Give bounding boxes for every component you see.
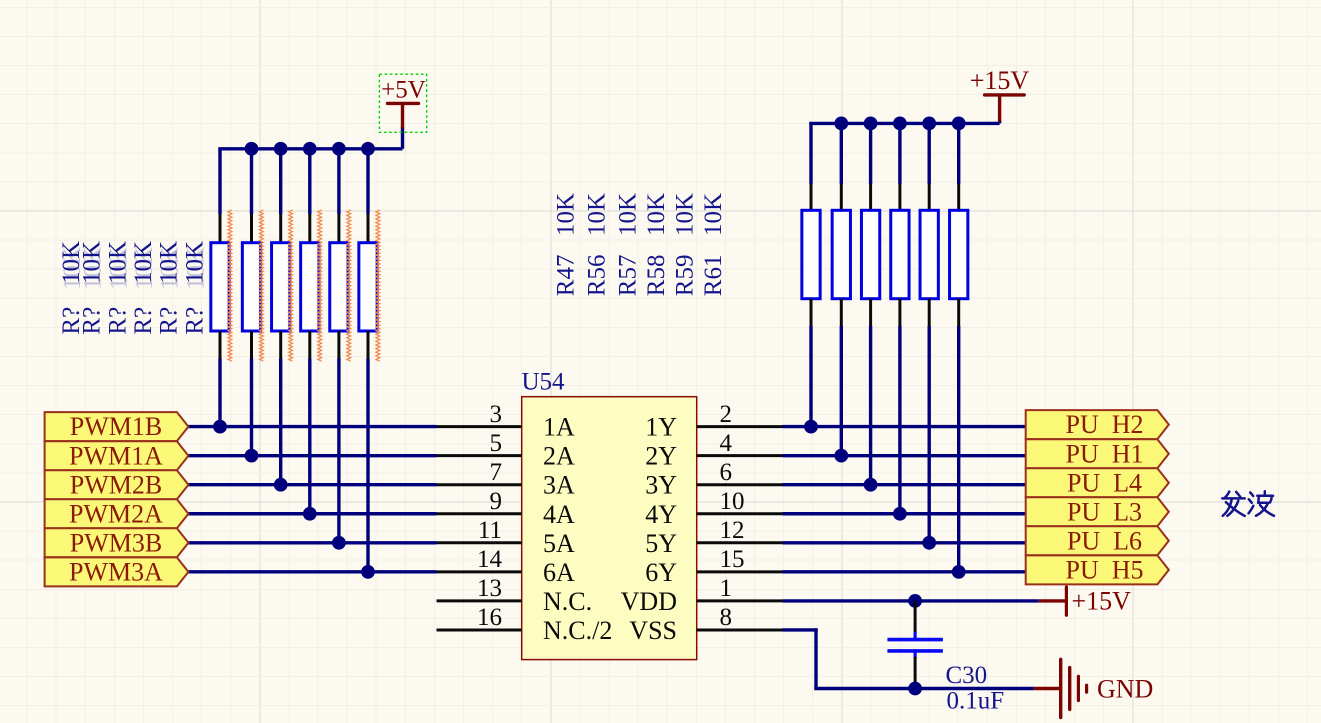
junction PWM2A / resistor column — [303, 507, 317, 521]
junction on +15V bus (col 5) — [922, 117, 936, 131]
svg-text:PU L6: PU L6 — [1067, 526, 1142, 555]
resistor R61 — [950, 123, 968, 571]
port PWM2B — [45, 470, 189, 499]
svg-text:2A: 2A — [543, 442, 575, 471]
pin 15 (6Y) — [645, 546, 782, 587]
svg-text:PWM1B: PWM1B — [70, 412, 162, 441]
svg-text:10: 10 — [720, 488, 745, 515]
IC U54 body — [522, 397, 697, 660]
selection box around +5V — [379, 74, 426, 132]
port PU L4 — [1026, 468, 1169, 497]
junction PU L4 / resistor R57 — [864, 478, 878, 492]
svg-text:12: 12 — [720, 517, 745, 544]
junction PU L3 / resistor R58 — [893, 507, 907, 521]
svg-text:+15V: +15V — [1072, 587, 1132, 616]
pin 2 (1Y) — [645, 401, 782, 442]
resistor R56 — [832, 123, 850, 455]
ground GND — [1034, 659, 1154, 717]
svg-text:9: 9 — [490, 488, 503, 515]
wire +5V bus horizontal — [218, 127, 402, 149]
svg-text:R?: R? — [79, 307, 106, 335]
port PWM1B — [45, 412, 189, 441]
svg-text:N.C.: N.C. — [543, 587, 592, 616]
wire PU H1 net — [783, 454, 1026, 457]
svg-text:1A: 1A — [543, 413, 575, 442]
port PU L6 — [1026, 526, 1169, 555]
port PU L3 — [1026, 497, 1169, 526]
junction PWM2B / resistor column — [274, 478, 288, 492]
error squiggle (left resistor 4) — [318, 210, 322, 361]
junction on +5V bus (col 3) — [274, 142, 288, 156]
power +15V (top) — [970, 66, 1030, 122]
svg-text:R57: R57 — [615, 255, 642, 297]
resistor R57 — [861, 123, 879, 484]
svg-text:3A: 3A — [543, 471, 575, 500]
port PWM2A — [45, 499, 189, 528]
wire VDD to +15V — [783, 599, 1039, 602]
label R56 10K — [584, 193, 611, 296]
port PWM3B — [45, 528, 189, 557]
junction on +5V bus (col 5) — [332, 142, 346, 156]
error squiggle (left resistor 2) — [260, 210, 264, 361]
svg-text:PU L3: PU L3 — [1067, 497, 1142, 526]
error squiggle (left resistor 6) — [376, 210, 380, 361]
resistor R59 — [920, 123, 938, 542]
error squiggle (left resistor 1) — [228, 210, 232, 361]
label R? 10K (left resistor 3) — [104, 241, 132, 335]
capacitor C30 — [887, 601, 943, 684]
svg-text:10K: 10K — [130, 241, 157, 284]
svg-text:PU H5: PU H5 — [1065, 555, 1143, 584]
pin 7 (3A) — [437, 459, 576, 500]
wire VSS to GND — [783, 628, 1034, 688]
svg-text:2: 2 — [720, 401, 733, 428]
svg-text:GND: GND — [1097, 675, 1153, 704]
svg-text:R56: R56 — [584, 255, 611, 297]
wire +15V bus horizontal — [809, 121, 999, 124]
svg-text:6: 6 — [720, 459, 733, 486]
pin 11 (5A) — [437, 517, 576, 558]
label R57 10K — [615, 193, 642, 296]
junction PU L6 / resistor R59 — [922, 536, 936, 550]
svg-text:PWM2B: PWM2B — [70, 470, 162, 499]
text 发波 — [1222, 491, 1274, 516]
svg-text:4: 4 — [720, 430, 733, 457]
svg-text:PWM3B: PWM3B — [70, 528, 162, 557]
label R? 10K (left resistor 6) — [181, 241, 209, 335]
junction PWM1A / resistor column — [245, 449, 259, 463]
resistor R? (left column 4) — [301, 149, 319, 514]
svg-text:8: 8 — [720, 604, 733, 631]
svg-text:VSS: VSS — [629, 616, 677, 645]
svg-text:16: 16 — [477, 604, 502, 631]
svg-text:4Y: 4Y — [645, 500, 677, 529]
svg-text:10K: 10K — [553, 193, 580, 236]
junction on +15V bus (col 3) — [864, 117, 878, 131]
wire PU L4 net — [783, 483, 1026, 486]
svg-text:+5V: +5V — [381, 77, 426, 104]
junction on +5V bus (col 4) — [303, 142, 317, 156]
port PU H5 — [1026, 555, 1169, 584]
svg-text:VDD: VDD — [621, 587, 677, 616]
junction VDD / C30 — [908, 594, 922, 608]
resistor R? (left column 6) — [359, 149, 377, 572]
junction on +5V bus (col 2) — [245, 142, 259, 156]
junction on +15V bus (col 2) — [834, 117, 848, 131]
wire PWM1B to pin — [188, 425, 436, 428]
svg-text:10K: 10K — [700, 193, 727, 236]
svg-text:10K: 10K — [672, 193, 699, 236]
svg-text:10K: 10K — [104, 241, 131, 284]
svg-text:0.1uF: 0.1uF — [947, 688, 1005, 715]
svg-text:PWM2A: PWM2A — [69, 499, 163, 528]
port PU H2 — [1026, 410, 1169, 439]
pin 1 (VDD) — [621, 575, 783, 616]
resistor R? (left column 1) — [211, 149, 229, 427]
port PWM3A — [45, 557, 189, 586]
junction on +15V bus (col 4) — [893, 117, 907, 131]
power +5V — [381, 77, 426, 129]
wire PWM3A to pin — [188, 570, 436, 573]
junction PU H2 / resistor R47 — [804, 420, 818, 434]
svg-text:10K: 10K — [181, 241, 208, 284]
resistor R? (left column 3) — [272, 149, 290, 485]
label R59 10K — [672, 193, 699, 296]
svg-text:PU H1: PU H1 — [1065, 439, 1143, 468]
pin 3 (1A) — [437, 401, 576, 442]
svg-text:R58: R58 — [643, 255, 670, 297]
pin 13 (N.C.) — [437, 575, 593, 616]
error squiggle (left resistor 3) — [289, 210, 293, 361]
svg-text:4A: 4A — [543, 500, 575, 529]
junction GND net / C30 — [908, 682, 922, 696]
resistor R47 — [802, 123, 820, 426]
wire PU L3 net — [783, 512, 1026, 515]
resistor R? (left column 5) — [330, 149, 348, 543]
pin 6 (3Y) — [645, 459, 782, 500]
svg-text:R?: R? — [156, 307, 183, 335]
svg-text:3Y: 3Y — [645, 471, 677, 500]
junction PU H1 / resistor R56 — [834, 449, 848, 463]
port PWM1A — [45, 441, 189, 470]
wire PU H2 net — [783, 425, 1026, 428]
pin 9 (4A) — [437, 488, 576, 529]
svg-text:C30: C30 — [946, 662, 988, 689]
svg-text:R61: R61 — [700, 255, 727, 297]
svg-text:11: 11 — [478, 517, 502, 544]
svg-text:+15V: +15V — [970, 66, 1030, 95]
label 0.1uF — [947, 688, 1005, 715]
svg-text:R59: R59 — [672, 255, 699, 297]
label C30 — [946, 662, 988, 689]
svg-text:14: 14 — [477, 546, 503, 573]
svg-text:10K: 10K — [79, 241, 106, 284]
svg-text:7: 7 — [490, 459, 503, 486]
pin 14 (6A) — [437, 546, 576, 587]
svg-text:10K: 10K — [615, 193, 642, 236]
junction on +5V bus (col 6) — [361, 142, 375, 156]
wire PWM2A to pin — [188, 512, 436, 515]
svg-text:10K: 10K — [643, 193, 670, 236]
pin 4 (2Y) — [645, 430, 782, 471]
wire PU H5 net — [783, 570, 1026, 573]
svg-text:N.C./2: N.C./2 — [543, 616, 612, 645]
junction PU H5 / resistor R61 — [952, 565, 966, 579]
svg-text:6Y: 6Y — [645, 558, 677, 587]
svg-text:1Y: 1Y — [645, 413, 677, 442]
junction PWM1B / resistor column — [213, 420, 227, 434]
pin 16 (N.C./2) — [437, 604, 613, 645]
resistor R58 — [891, 123, 909, 513]
label R61 10K — [700, 193, 727, 296]
svg-text:PU H2: PU H2 — [1065, 410, 1143, 439]
svg-text:U54: U54 — [522, 369, 566, 396]
svg-text:3: 3 — [490, 401, 503, 428]
svg-text:PU L4: PU L4 — [1067, 468, 1142, 497]
svg-text:R?: R? — [104, 307, 131, 335]
svg-text:PWM3A: PWM3A — [69, 557, 163, 586]
svg-text:R?: R? — [181, 307, 208, 335]
label R? 10K (left resistor 4) — [130, 241, 158, 335]
pin 12 (5Y) — [645, 517, 782, 558]
svg-text:13: 13 — [477, 575, 502, 602]
pin 10 (4Y) — [645, 488, 782, 529]
svg-text:5Y: 5Y — [645, 529, 677, 558]
label R? 10K (left resistor 2) — [79, 241, 107, 335]
label R? 10K (left resistor 1) — [58, 241, 86, 335]
svg-text:5A: 5A — [543, 529, 575, 558]
svg-text:1: 1 — [720, 575, 733, 602]
wire PU L6 net — [783, 541, 1026, 544]
svg-text:15: 15 — [720, 546, 745, 573]
power +15V (right) — [1039, 587, 1131, 616]
svg-text:10K: 10K — [584, 193, 611, 236]
svg-text:R?: R? — [130, 307, 157, 335]
svg-text:6A: 6A — [543, 558, 575, 587]
svg-text:R47: R47 — [553, 255, 580, 297]
junction on +15V bus (col 6) — [952, 117, 966, 131]
svg-text:PWM1A: PWM1A — [69, 441, 163, 470]
pin 5 (2A) — [437, 430, 576, 471]
svg-text:2Y: 2Y — [645, 442, 677, 471]
label R58 10K — [643, 193, 670, 296]
wire PWM3B to pin — [188, 541, 436, 544]
label R? 10K (left resistor 5) — [156, 241, 184, 335]
resistor R? (left column 2) — [242, 149, 260, 456]
junction PWM3A / resistor column — [361, 565, 375, 579]
port PU H1 — [1026, 439, 1169, 468]
svg-text:5: 5 — [490, 430, 503, 457]
label R47 10K — [553, 193, 580, 296]
error squiggle (left resistor 5) — [347, 210, 351, 361]
junction PWM3B / resistor column — [332, 536, 346, 550]
designator U54 — [522, 369, 566, 396]
wire PWM1A to pin — [188, 454, 436, 457]
svg-text:10K: 10K — [156, 241, 183, 284]
pin 8 (VSS) — [629, 604, 782, 645]
wire PWM2B to pin — [188, 483, 436, 486]
